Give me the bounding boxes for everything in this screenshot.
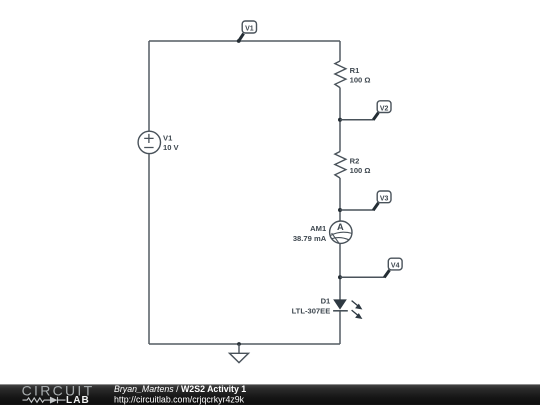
svg-text:100 Ω: 100 Ω (350, 76, 371, 85)
svg-text:V1: V1 (245, 26, 254, 33)
wire left vertical lower (148, 154, 150, 344)
svg-text:R2: R2 (350, 157, 360, 166)
node tag V3 (338, 191, 391, 212)
svg-text:A: A (337, 222, 344, 232)
node tag V1 (237, 21, 257, 43)
svg-text:LAB: LAB (66, 395, 90, 405)
wire left vertical upper (148, 41, 150, 131)
wire right: AM1 to D1 (339, 243, 341, 300)
wire right: top to R1 (339, 41, 341, 61)
label D1 value (292, 296, 331, 315)
wire right: D1 to bottom (339, 311, 341, 344)
label AM1 value (293, 224, 327, 243)
svg-text:AM1: AM1 (310, 224, 327, 233)
svg-text:38.79 mA: 38.79 mA (293, 234, 327, 243)
LED D1 (333, 300, 362, 319)
label V1 value (163, 134, 180, 153)
svg-text:Bryan_Martens / W2S2 Activity: Bryan_Martens / W2S2 Activity 1 (114, 384, 246, 394)
footer bar (0, 384, 540, 405)
resistor R2 (335, 152, 346, 179)
voltage source V1 (138, 131, 160, 153)
node tag V2 (338, 101, 391, 122)
svg-text:V4: V4 (391, 263, 400, 270)
svg-text:http://circuitlab.com/crjqcrky: http://circuitlab.com/crjqcrkyr4z9k (114, 394, 245, 404)
svg-text:V1: V1 (163, 134, 173, 143)
svg-text:R1: R1 (350, 66, 360, 75)
wire right: R2 to AM1 (339, 178, 341, 221)
svg-text:LTL-307EE: LTL-307EE (292, 306, 331, 315)
CircuitLab logo resistor-diode glyph (23, 397, 66, 403)
ground (230, 342, 249, 363)
resistor R1 (335, 61, 346, 88)
svg-text:100 Ω: 100 Ω (350, 166, 371, 175)
svg-text:D1: D1 (321, 296, 331, 305)
node tag V4 (338, 258, 402, 279)
svg-text:V3: V3 (380, 196, 389, 203)
label R2 value (350, 157, 371, 175)
svg-text:10 V: 10 V (163, 143, 180, 152)
wire bottom horizontal (149, 343, 340, 345)
wire right: R1 to R2 (339, 88, 341, 152)
wire top horizontal (149, 40, 340, 42)
svg-text:V2: V2 (380, 105, 389, 112)
label R1 value (350, 66, 371, 84)
ammeter AM1 (330, 221, 352, 243)
